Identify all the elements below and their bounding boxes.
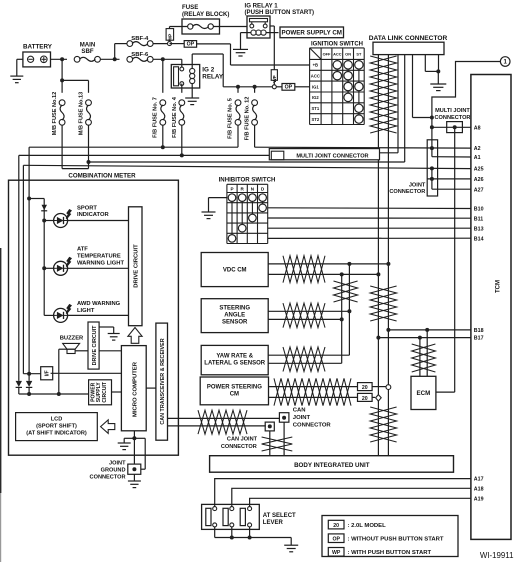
svg-text:BUZZER: BUZZER bbox=[60, 336, 84, 342]
svg-text:MULTI JOINT CONNECTOR: MULTI JOINT CONNECTOR bbox=[296, 153, 368, 159]
svg-text:(RELAY BLOCK): (RELAY BLOCK) bbox=[182, 11, 229, 18]
svg-text:B17: B17 bbox=[474, 336, 484, 342]
svg-text:A8: A8 bbox=[474, 125, 481, 131]
svg-text:IG1: IG1 bbox=[312, 84, 319, 89]
svg-text:ST2: ST2 bbox=[312, 117, 320, 122]
svg-text:CM: CM bbox=[230, 392, 239, 398]
svg-text:20: 20 bbox=[362, 385, 368, 391]
svg-text:B13: B13 bbox=[474, 226, 484, 232]
svg-text:P: P bbox=[230, 187, 233, 192]
svg-text:VDC CM: VDC CM bbox=[223, 268, 247, 274]
svg-text:POWER STEERING: POWER STEERING bbox=[207, 385, 262, 391]
svg-text:CAN JOINT: CAN JOINT bbox=[227, 436, 258, 442]
svg-text:B11: B11 bbox=[474, 216, 483, 222]
svg-text:A1: A1 bbox=[474, 155, 481, 161]
svg-text:A27: A27 bbox=[474, 187, 484, 193]
svg-text:ACC: ACC bbox=[311, 74, 320, 79]
svg-text:OFF: OFF bbox=[323, 52, 331, 57]
svg-text:JOINT: JOINT bbox=[293, 415, 311, 421]
svg-text:ST1: ST1 bbox=[312, 106, 320, 111]
svg-text:B10: B10 bbox=[474, 207, 484, 213]
svg-text:DATA LINK CONNECTOR: DATA LINK CONNECTOR bbox=[369, 35, 448, 42]
svg-text:SBF-4: SBF-4 bbox=[131, 36, 149, 42]
svg-text:(PUSH BUTTON START): (PUSH BUTTON START) bbox=[245, 9, 315, 16]
svg-text:BATTERY: BATTERY bbox=[23, 43, 53, 50]
svg-text:SBF-6: SBF-6 bbox=[131, 52, 149, 58]
svg-text:F/B FUSE No. 5: F/B FUSE No. 5 bbox=[228, 98, 234, 139]
svg-text:INHIBITOR SWITCH: INHIBITOR SWITCH bbox=[219, 176, 276, 183]
svg-text:WARNING LIGHT: WARNING LIGHT bbox=[77, 260, 124, 266]
svg-text:WP: WP bbox=[168, 34, 173, 42]
svg-text:IG 2: IG 2 bbox=[202, 67, 214, 74]
svg-text:LCD: LCD bbox=[51, 417, 63, 423]
svg-text:: 2.0L MODEL: : 2.0L MODEL bbox=[348, 523, 387, 529]
svg-text:DRIVE CIRCUIT: DRIVE CIRCUIT bbox=[92, 325, 98, 366]
svg-text:ON: ON bbox=[345, 52, 351, 57]
svg-text:ATF: ATF bbox=[77, 247, 88, 253]
svg-text:STEERING: STEERING bbox=[219, 306, 250, 312]
svg-text:ACC: ACC bbox=[333, 52, 342, 57]
svg-text:+B: +B bbox=[313, 63, 318, 68]
svg-text:A25: A25 bbox=[474, 167, 484, 173]
svg-text:M/B FUSE No.12: M/B FUSE No.12 bbox=[52, 92, 58, 136]
svg-text:(AT SHIFT INDICATOR): (AT SHIFT INDICATOR) bbox=[26, 431, 87, 437]
svg-text:OP: OP bbox=[285, 85, 293, 91]
svg-text:ECM: ECM bbox=[417, 390, 431, 397]
svg-text:RELAY: RELAY bbox=[202, 74, 224, 81]
svg-text:DRIVE CIRCUIT: DRIVE CIRCUIT bbox=[133, 244, 139, 288]
svg-text:LIGHT: LIGHT bbox=[77, 308, 95, 314]
svg-text:POWER SUPPLY CM: POWER SUPPLY CM bbox=[281, 30, 342, 37]
svg-text:A17: A17 bbox=[474, 477, 484, 483]
svg-text:CONNECTOR: CONNECTOR bbox=[389, 189, 425, 195]
svg-text:SENSOR: SENSOR bbox=[222, 320, 248, 326]
svg-text:ANGLE: ANGLE bbox=[224, 313, 245, 319]
svg-text:: WITH PUSH BUTTON START: : WITH PUSH BUTTON START bbox=[348, 550, 432, 556]
svg-text:MULTI JOINT: MULTI JOINT bbox=[435, 108, 470, 114]
svg-text:F/B FUSE No. 7: F/B FUSE No. 7 bbox=[153, 97, 159, 138]
svg-text:M/B FUSE No.13: M/B FUSE No.13 bbox=[79, 92, 85, 136]
svg-text:A18: A18 bbox=[474, 486, 484, 492]
svg-text:OP: OP bbox=[332, 537, 340, 543]
svg-text:JOINT: JOINT bbox=[409, 182, 426, 188]
svg-text:CONNECTOR: CONNECTOR bbox=[90, 475, 126, 481]
svg-text:TCM: TCM bbox=[496, 280, 502, 293]
svg-text:N: N bbox=[251, 187, 255, 192]
svg-text:OP: OP bbox=[187, 42, 195, 48]
svg-text:WI-19911: WI-19911 bbox=[480, 551, 514, 560]
svg-text:WP: WP bbox=[332, 550, 341, 556]
svg-text:AWD WARNING: AWD WARNING bbox=[77, 301, 121, 307]
svg-text:A2: A2 bbox=[474, 146, 481, 152]
svg-text:ST: ST bbox=[356, 52, 362, 57]
svg-text:20: 20 bbox=[362, 396, 368, 402]
svg-text:AT SELECT: AT SELECT bbox=[263, 513, 296, 519]
svg-text:JOINT: JOINT bbox=[109, 461, 126, 467]
svg-text:COMBINATION METER: COMBINATION METER bbox=[68, 173, 136, 180]
svg-text:I/F: I/F bbox=[44, 370, 50, 376]
svg-text:CAN: CAN bbox=[293, 408, 306, 414]
svg-text:CONNECTOR: CONNECTOR bbox=[221, 444, 257, 450]
svg-text:INDICATOR: INDICATOR bbox=[77, 212, 109, 218]
svg-text:SBF: SBF bbox=[81, 48, 93, 55]
svg-text:IG2: IG2 bbox=[312, 95, 319, 100]
svg-text:A19: A19 bbox=[474, 496, 484, 502]
svg-text:: WITHOUT PUSH BUTTON START: : WITHOUT PUSH BUTTON START bbox=[348, 537, 444, 543]
svg-text:CONNECTOR: CONNECTOR bbox=[435, 115, 471, 121]
svg-text:(SPORT SHIFT): (SPORT SHIFT) bbox=[36, 424, 77, 430]
svg-text:CONNECTOR: CONNECTOR bbox=[293, 423, 332, 429]
svg-text:BODY INTEGRATED UNIT: BODY INTEGRATED UNIT bbox=[294, 462, 370, 469]
svg-text:1: 1 bbox=[504, 59, 508, 66]
svg-text:20: 20 bbox=[333, 523, 339, 529]
svg-text:B18: B18 bbox=[474, 328, 484, 334]
svg-text:MICRO COMPUTER: MICRO COMPUTER bbox=[132, 361, 138, 417]
svg-text:F/B FUSE No. 12: F/B FUSE No. 12 bbox=[245, 97, 251, 141]
svg-text:LATERAL G SENSOR: LATERAL G SENSOR bbox=[204, 361, 265, 367]
svg-text:TEMPERATURE: TEMPERATURE bbox=[77, 254, 121, 260]
svg-text:SPORT: SPORT bbox=[77, 205, 97, 211]
svg-text:B14: B14 bbox=[474, 236, 484, 242]
svg-text:YAW RATE &: YAW RATE & bbox=[216, 354, 253, 360]
svg-text:A26: A26 bbox=[474, 177, 484, 183]
svg-text:F/B FUSE No. 4: F/B FUSE No. 4 bbox=[172, 96, 178, 138]
svg-text:IGNITION SWITCH: IGNITION SWITCH bbox=[311, 41, 363, 47]
svg-text:LEVER: LEVER bbox=[263, 520, 284, 526]
svg-text:GROUND: GROUND bbox=[101, 468, 126, 474]
svg-text:CAN TRANSCEIVER & RECEIVER: CAN TRANSCEIVER & RECEIVER bbox=[160, 338, 166, 424]
svg-text:D: D bbox=[261, 187, 265, 192]
svg-text:R: R bbox=[241, 187, 245, 192]
svg-text:CIRCUIT: CIRCUIT bbox=[102, 381, 108, 403]
